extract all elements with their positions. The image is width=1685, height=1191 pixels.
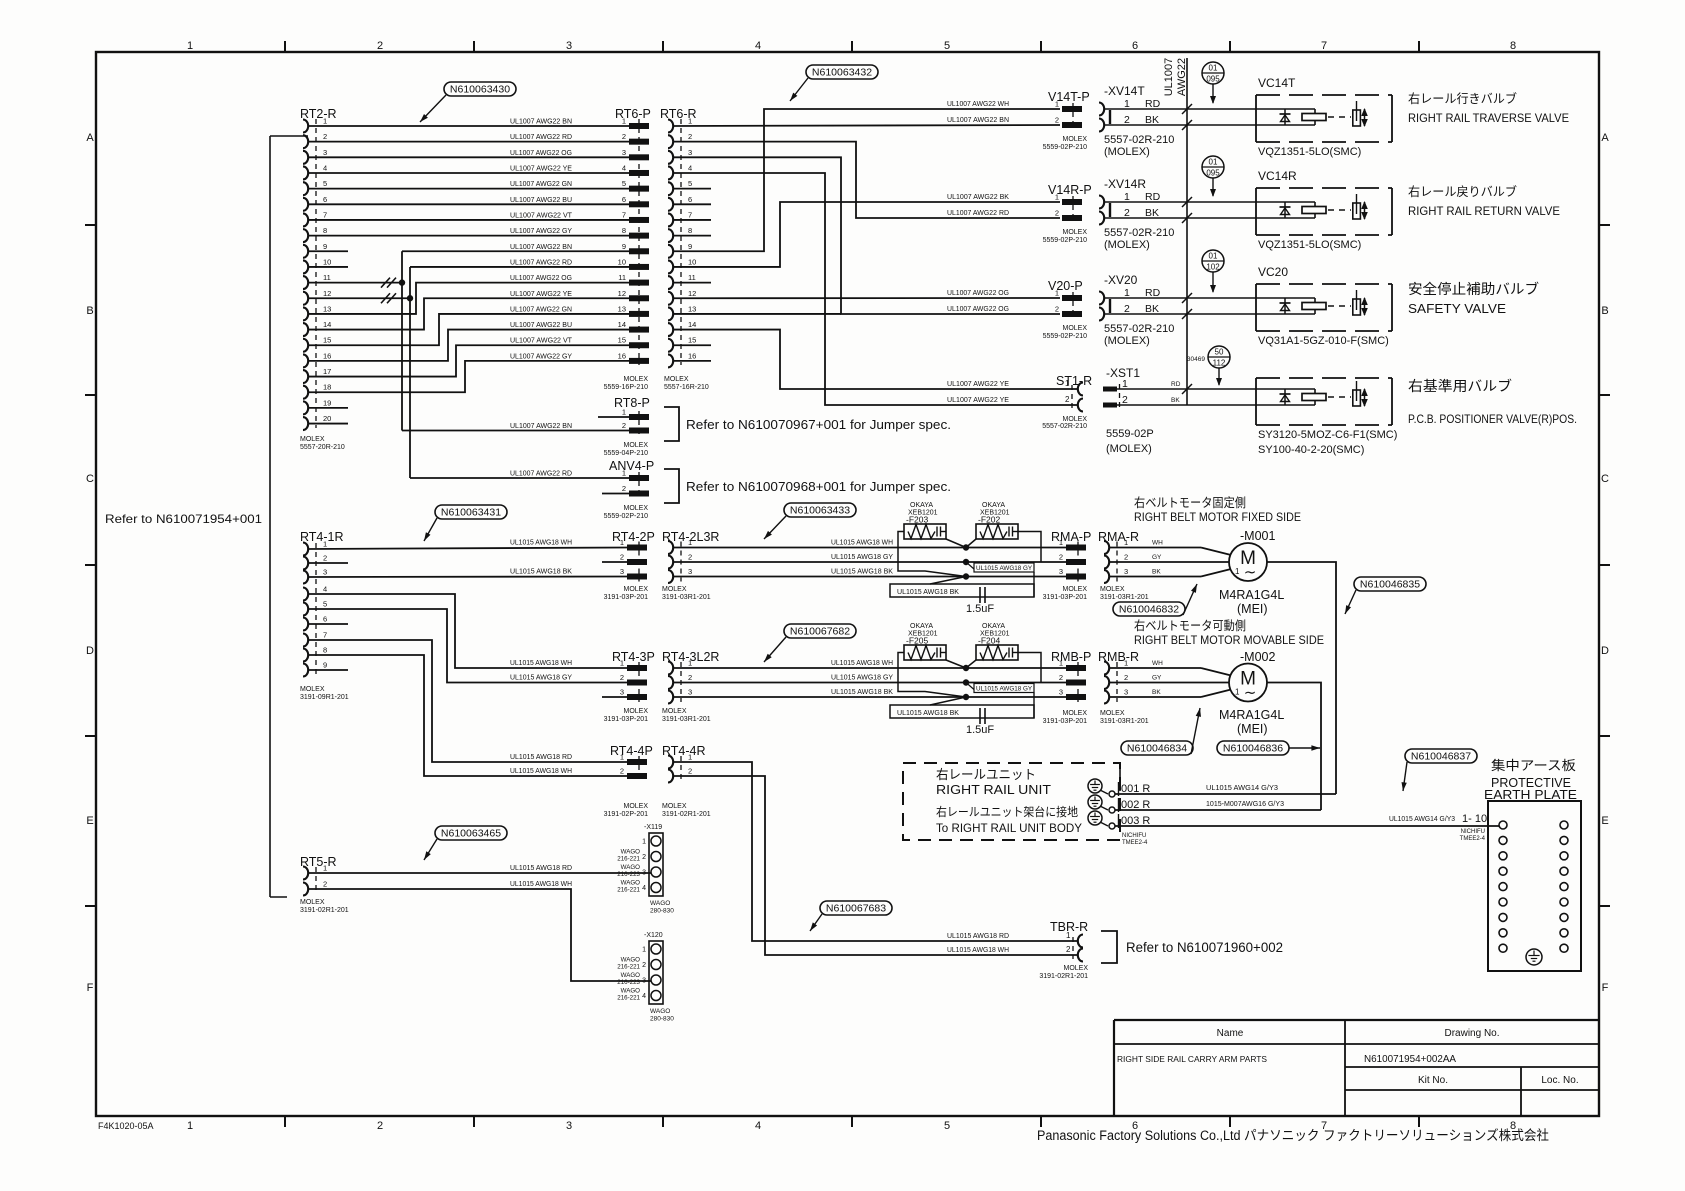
svg-text:MOLEX: MOLEX [300,436,325,443]
svg-text:RT2-R: RT2-R [300,107,337,121]
svg-text:2: 2 [323,132,327,141]
svg-text:3191-03P-201: 3191-03P-201 [604,716,648,723]
title block [1114,1019,1599,1021]
svg-text:MOLEX: MOLEX [1063,965,1088,972]
svg-text:5557-20R-210: 5557-20R-210 [300,444,345,451]
svg-text:3: 3 [323,148,327,157]
wire stub RT2-R pin20 [308,423,348,425]
svg-text:1: 1 [622,469,626,478]
svg-text:TMEE2-4: TMEE2-4 [1122,840,1148,846]
svg-text:1.5uF: 1.5uF [966,724,994,736]
svg-text:(MEI): (MEI) [1237,722,1268,736]
svg-text:UL1015 AWG14 G/Y3: UL1015 AWG14 G/Y3 [1389,816,1455,823]
svg-text:(MOLEX): (MOLEX) [1104,146,1150,158]
wire node A to RT8-P pin2 UL1007 AWG22 BN [402,430,629,432]
svg-text:1: 1 [1055,193,1059,202]
svg-text:RT4-4P: RT4-4P [610,744,653,758]
svg-text:N610063431: N610063431 [441,507,501,519]
svg-text:VQZ1351-5LO(SMC): VQZ1351-5LO(SMC) [1258,146,1361,158]
svg-text:112: 112 [1213,359,1226,368]
svg-text:1: 1 [1055,289,1059,298]
svg-text:3: 3 [642,978,646,985]
svg-text:5557-02R-210: 5557-02R-210 [1104,134,1174,146]
svg-text:A: A [1601,132,1609,144]
svg-text:15: 15 [688,336,696,345]
svg-text:N610067683: N610067683 [826,903,886,915]
svg-text:MOLEX: MOLEX [1062,586,1087,593]
wire RT6-R pin9 to V14T-P pin1 [673,109,1060,251]
svg-text:N610063465: N610063465 [441,828,501,840]
svg-text:-F205: -F205 [906,636,928,646]
svg-text:095: 095 [1206,75,1220,84]
svg-text:右レール行きバルブ: 右レール行きバルブ [1408,91,1517,106]
wire stub RT8-P pin1 [598,416,629,418]
svg-text:UL1007 AWG22 RD: UL1007 AWG22 RD [510,471,572,478]
svg-text:UL1007 AWG22 OG: UL1007 AWG22 OG [947,306,1009,313]
wires RMA-R to motor M001 [1109,547,1201,549]
svg-text:19: 19 [323,398,331,407]
svg-text:Refer to N610071960+002: Refer to N610071960+002 [1126,940,1283,955]
svg-text:3191-03R1-201: 3191-03R1-201 [1100,594,1149,601]
svg-text:2: 2 [1055,305,1059,314]
svg-text:6: 6 [688,195,692,204]
svg-text:16: 16 [688,351,696,360]
svg-text:5557-16R-210: 5557-16R-210 [664,384,709,391]
wire RT2-R pin5 to RT6-P pin5 UL1007 AWG22 GN [308,188,629,190]
svg-text:216-221: 216-221 [617,856,640,863]
wire M001 earth to 001R [1267,562,1336,794]
harness bundle UL1007 AWG22 [1186,58,1188,405]
svg-text:216-221: 216-221 [617,887,640,894]
ref bubble N610063432 [806,65,878,79]
svg-text:3191-03R1-201: 3191-03R1-201 [662,716,711,723]
svg-text:4: 4 [642,993,646,1000]
svg-text:UL1015 AWG18 WH: UL1015 AWG18 WH [510,881,572,888]
svg-text:3191-02R1-201: 3191-02R1-201 [662,811,711,818]
svg-text:UL1015 AWG18 RD: UL1015 AWG18 RD [510,754,572,761]
svg-text:4: 4 [323,163,327,172]
svg-text:2: 2 [377,1120,383,1132]
wire RT6-R pin4 to ST1-R pin2 [673,173,1077,405]
svg-text:UL1007: UL1007 [1163,58,1175,97]
wire RT2-R pin3 to RT6-P pin3 UL1007 AWG22 OG [308,156,629,158]
svg-text:OKAYA: OKAYA [910,623,933,630]
svg-text:095: 095 [1206,169,1220,178]
svg-text:2: 2 [622,421,626,430]
svg-text:F4K1020-05A: F4K1020-05A [98,1121,154,1131]
svg-text:UL1015 AWG18 WH: UL1015 AWG18 WH [510,768,572,775]
wire M002 earth to 002R [1267,683,1321,811]
svg-text:5: 5 [323,600,327,609]
svg-text:2: 2 [620,553,624,562]
svg-text:右ベルトモータ固定側: 右ベルトモータ固定側 [1134,495,1246,510]
svg-text:12: 12 [323,289,331,298]
harness bracket N610071954+001 [269,136,271,897]
svg-text:RT4-2P: RT4-2P [612,530,655,544]
svg-text:4: 4 [688,163,692,172]
svg-text:WAGO: WAGO [621,864,641,871]
wire RT4-1R pin1 to RT4-2P pin1 UL1015 AWG18 WH [308,548,627,550]
svg-text:2: 2 [620,673,624,682]
svg-text:14: 14 [688,320,696,329]
svg-text:N610046835: N610046835 [1360,579,1420,591]
svg-text:OKAYA: OKAYA [982,502,1005,509]
svg-text:-X119: -X119 [644,824,662,831]
svg-text:VC14T: VC14T [1258,76,1296,90]
wire RT4-1R pin7 to RT4-4P pin1 UL1015 AWG18 RD [308,640,627,762]
svg-text:(MOLEX): (MOLEX) [1106,443,1152,455]
motor M002 (M4RA1G4L) [1229,664,1267,702]
svg-text:RIGHT RAIL UNIT: RIGHT RAIL UNIT [936,782,1051,797]
ref bubble N610063433 [784,503,856,517]
svg-text:RT6-P: RT6-P [615,107,651,121]
wire RT6-R pin14 to ST1-R pin1 [673,330,1077,389]
svg-text:16: 16 [618,351,626,360]
svg-text:MOLEX: MOLEX [623,505,648,512]
svg-text:OKAYA: OKAYA [910,502,933,509]
svg-text:2: 2 [1059,673,1063,682]
wire stub RT6-R pin5 [673,188,711,190]
svg-text:1: 1 [688,538,692,547]
svg-text:MOLEX: MOLEX [1100,586,1125,593]
svg-text:UL1007 AWG22 GY: UL1007 AWG22 GY [510,228,572,235]
svg-text:F: F [1602,982,1609,994]
svg-text:UL1015 AWG18 WH: UL1015 AWG18 WH [510,540,572,547]
ref bubble N610046832 [1113,602,1185,616]
svg-text:C: C [86,473,94,485]
svg-text:ST1-R: ST1-R [1056,374,1092,388]
svg-text:3191-03P-201: 3191-03P-201 [1043,594,1087,601]
motor M001 (M4RA1G4L) [1229,543,1267,581]
wire to RT6-P pin9 UL1007 AWG22 BN [402,250,629,252]
wires RT4-3L2R to RMB-P [673,667,1066,669]
svg-text:5: 5 [944,40,950,52]
svg-text:1: 1 [688,117,692,126]
svg-text:UL1007 AWG22 GN: UL1007 AWG22 GN [510,181,572,188]
svg-text:3191-03P-201: 3191-03P-201 [604,594,648,601]
svg-text:D: D [86,645,94,657]
svg-text:(MOLEX): (MOLEX) [1104,239,1150,251]
jumper bracket ANV4-P [664,469,679,503]
wire stub RT2-R pin10 [308,266,348,268]
svg-text:MOLEX: MOLEX [623,586,648,593]
svg-text:5559-02P-210: 5559-02P-210 [1043,333,1087,340]
wire RT2-R pin2 to RT6-P pin2 UL1007 AWG22 RD [308,141,629,143]
svg-text:2: 2 [1055,116,1059,125]
svg-text:N610071954+002AA: N610071954+002AA [1364,1053,1456,1065]
svg-text:1: 1 [622,117,626,126]
svg-text:3: 3 [688,148,692,157]
svg-text:13: 13 [618,304,626,313]
wire node A vertical (to RT6-P pin9 / RT8-P pin2) [401,251,403,430]
svg-text:5559-02P-210: 5559-02P-210 [1043,144,1087,151]
svg-text:2: 2 [1065,395,1070,404]
svg-text:Name: Name [1217,1028,1244,1039]
svg-text:3191-03P-201: 3191-03P-201 [1043,718,1087,725]
svg-text:RT4-3P: RT4-3P [612,650,655,664]
svg-text:216-221: 216-221 [617,995,640,1002]
wire RT4-1R pin8 to RT4-4P pin2 UL1015 AWG18 WH [308,655,627,776]
svg-text:WAGO: WAGO [621,849,641,856]
svg-text:UL1015 AWG18 GY: UL1015 AWG18 GY [510,675,572,682]
ref bubble N610046837 [1405,749,1477,763]
svg-text:UL1007 AWG22 YE: UL1007 AWG22 YE [947,397,1009,404]
svg-text:10: 10 [618,257,626,266]
svg-text:30469: 30469 [1187,356,1205,363]
svg-text:UL1007 AWG22 RD: UL1007 AWG22 RD [947,210,1009,217]
svg-text:TMEE2-4: TMEE2-4 [1460,836,1486,842]
svg-text:20: 20 [323,414,331,423]
wire RT2-R pin16 to RT6-P pin14 UL1007 AWG22 BU [308,330,629,361]
svg-text:UL1007 AWG22 VT: UL1007 AWG22 VT [510,212,573,219]
svg-text:2: 2 [622,132,626,141]
svg-text:MOLEX: MOLEX [662,803,687,810]
svg-text:11: 11 [618,273,626,282]
svg-text:50: 50 [1215,348,1224,357]
svg-text:8: 8 [622,226,626,235]
svg-text:4: 4 [755,40,761,52]
svg-text:2: 2 [1124,553,1128,562]
wire RT6-R pin2 to V14R-P pin2 [673,142,1060,218]
svg-text:NICHIFU: NICHIFU [1461,829,1485,835]
wire node B vertical (to RT6-P pin10 / ANV4-P pin1) [409,267,411,478]
svg-text:UL1015 AWG14 G/Y3: UL1015 AWG14 G/Y3 [1206,785,1278,792]
svg-text:1: 1 [1059,659,1063,668]
svg-text:11: 11 [688,273,696,282]
svg-text:1: 1 [323,540,327,549]
ref bubble N610063430 [444,82,516,96]
svg-text:4: 4 [642,885,646,892]
svg-text:UL1015 AWG18 BK: UL1015 AWG18 BK [831,689,893,696]
svg-text:9: 9 [323,242,327,251]
svg-text:WAGO: WAGO [621,957,641,964]
wire RT2-R pin8 to RT6-P pin8 UL1007 AWG22 GY [308,235,629,237]
wire stub RT2-R pin9 [308,250,348,252]
wire stub RT6-R pin11 [673,282,711,284]
wire node B to ANV4-P pin1 UL1007 AWG22 RD [410,477,629,479]
svg-text:(MEI): (MEI) [1237,602,1268,616]
svg-text:3: 3 [1124,688,1128,697]
unit box stub line [1119,763,1121,791]
ref circle 01/095 (V14T) [1202,62,1224,84]
svg-text:4: 4 [323,585,327,594]
svg-text:-F203: -F203 [906,515,928,525]
svg-text:安全停止補助バルブ: 安全停止補助バルブ [1408,281,1539,297]
terminal labels 001R/002R/003R [1118,782,1120,796]
wire stub RT4-1R pin9 [308,669,348,671]
right rail unit box [903,763,1120,840]
svg-text:RMB-P: RMB-P [1051,650,1091,664]
svg-text:N610067682: N610067682 [790,626,850,638]
svg-text:MOLEX: MOLEX [1100,710,1125,717]
jumper bracket RT8-P [664,407,679,441]
svg-text:WAGO: WAGO [621,972,641,979]
svg-text:MOLEX: MOLEX [1062,136,1087,143]
svg-text:UL1007 AWG22 BU: UL1007 AWG22 BU [510,197,572,204]
svg-text:UL1015 AWG18 BK: UL1015 AWG18 BK [897,589,959,596]
svg-text:1.5uF: 1.5uF [966,603,994,615]
wire RT2-R pin12 (twisted) to node [308,297,410,299]
svg-text:5: 5 [323,179,327,188]
svg-text:14: 14 [323,320,331,329]
svg-text:8: 8 [1510,40,1516,52]
svg-text:EARTH PLATE: EARTH PLATE [1484,788,1577,802]
svg-text:UL1015 AWG18 WH: UL1015 AWG18 WH [831,660,893,667]
svg-text:1: 1 [323,864,327,873]
svg-text:N610063430: N610063430 [450,84,510,96]
wire RT6-R pin10 to V14R-P pin1 [673,202,1060,267]
svg-text:VQ31A1-5GZ-010-F(SMC): VQ31A1-5GZ-010-F(SMC) [1258,335,1389,347]
svg-text:10: 10 [323,257,331,266]
svg-text:V20-P: V20-P [1048,279,1083,293]
svg-text:D: D [1601,645,1609,657]
svg-text:VQZ1351-5LO(SMC): VQZ1351-5LO(SMC) [1258,239,1361,251]
wire RT2-R pin18 to RT6-P pin16 UL1007 AWG22 GY [308,361,629,392]
svg-text:右レールユニット: 右レールユニット [936,767,1036,782]
svg-text:UL1007 AWG22 GY: UL1007 AWG22 GY [510,353,572,360]
wire RT2-R pin17 to RT6-P pin15 UL1007 AWG22 VT [308,345,629,376]
svg-text:SY100-40-2-20(SMC): SY100-40-2-20(SMC) [1258,444,1364,456]
svg-text:14: 14 [618,320,626,329]
svg-text:6: 6 [1132,40,1138,52]
svg-text:3: 3 [688,567,692,576]
svg-text:-XV20: -XV20 [1104,273,1138,287]
svg-text:1: 1 [620,659,624,668]
wire RT2-R pin1 to RT6-P pin1 UL1007 AWG22 BN [308,125,629,127]
svg-text:3: 3 [1124,567,1128,576]
svg-text:2: 2 [622,484,626,493]
svg-text:UL1015 AWG18 BK: UL1015 AWG18 BK [831,569,893,576]
svg-text:2: 2 [688,673,692,682]
svg-text:5559-02P-210: 5559-02P-210 [1043,237,1087,244]
wire RT5-R pin1 to X119-3 UL1015 AWG18 RD [308,872,651,874]
ref bubble N610046834 [1121,741,1193,755]
svg-text:ANV4-P: ANV4-P [609,459,654,473]
svg-text:(MOLEX): (MOLEX) [1104,335,1150,347]
svg-text:3191-03R1-201: 3191-03R1-201 [1100,718,1149,725]
svg-text:1: 1 [620,753,624,762]
svg-text:UL1007 AWG22 YE: UL1007 AWG22 YE [510,291,572,298]
svg-text:5557-02R-210: 5557-02R-210 [1042,423,1087,430]
svg-text:N610046836: N610046836 [1223,743,1283,755]
svg-text:1: 1 [688,659,692,668]
wire RT6-R pin12 to V20-P pin1 [673,297,1060,299]
svg-text:右レール戻りバルブ: 右レール戻りバルブ [1408,184,1517,199]
svg-text:1: 1 [642,839,646,846]
svg-text:1: 1 [187,40,193,52]
svg-text:9: 9 [688,242,692,251]
wire 001R to M001 UL1015 AWG14 G/Y3 [1115,793,1336,795]
svg-text:2: 2 [642,962,646,969]
svg-text:10: 10 [688,257,696,266]
svg-text:2: 2 [688,132,692,141]
wire stub RT6-R pin8 [673,235,711,237]
svg-text:WAGO: WAGO [621,880,641,887]
svg-text:-F204: -F204 [978,636,1000,646]
svg-text:8: 8 [688,226,692,235]
svg-text:1: 1 [1124,659,1128,668]
svg-text:01: 01 [1209,252,1218,261]
wire RT4-1R pin4 to RT4-3P pin1 UL1015 AWG18 WH [308,594,627,668]
svg-text:MOLEX: MOLEX [1062,229,1087,236]
svg-text:BK: BK [1152,569,1161,576]
svg-text:MOLEX: MOLEX [623,376,648,383]
svg-text:7: 7 [1321,40,1327,52]
svg-text:VC20: VC20 [1258,265,1288,279]
svg-text:MOLEX: MOLEX [300,899,325,906]
wire RT2-R pin15 to RT6-P pin13 UL1007 AWG22 GN [308,314,629,345]
svg-text:UL1007 AWG22 OG: UL1007 AWG22 OG [510,275,572,282]
svg-text:6: 6 [323,195,327,204]
svg-text:17: 17 [323,367,331,376]
svg-text:-X120: -X120 [644,932,663,939]
svg-text:WAGO: WAGO [650,1008,670,1015]
svg-text:3: 3 [620,688,624,697]
wire RT2-R pin6 to RT6-P pin6 UL1007 AWG22 BU [308,203,629,205]
wire RT4-1R pin5 to RT4-3P pin2 UL1015 AWG18 GY [308,609,627,683]
wire RT2-R pin11 (twisted) to node [308,282,402,284]
svg-text:A: A [86,132,94,144]
svg-text:2: 2 [642,854,646,861]
svg-text:Refer to N610070968+001 for Ju: Refer to N610070968+001 for Jumper spec. [686,479,951,494]
svg-text:-XV14T: -XV14T [1104,84,1145,98]
svg-text:M4RA1G4L: M4RA1G4L [1219,588,1284,602]
svg-text:3: 3 [642,870,646,877]
svg-text:N610063433: N610063433 [790,505,850,517]
svg-text:1: 1 [1059,538,1063,547]
svg-text:3: 3 [566,1120,572,1132]
svg-text:13: 13 [323,304,331,313]
svg-text:2: 2 [688,553,692,562]
wire RT2-R pin7 to RT6-P pin7 UL1007 AWG22 VT [308,219,629,221]
ref circle 01/102 (V20) [1202,250,1224,272]
svg-text:UL1015 AWG18 GY: UL1015 AWG18 GY [976,686,1033,693]
svg-text:UL1007 AWG22 OG: UL1007 AWG22 OG [510,150,572,157]
wire stub RT6-R pin15 [673,344,711,346]
svg-text:UL1007 AWG22 BN: UL1007 AWG22 BN [947,117,1009,124]
svg-text:15: 15 [618,336,626,345]
ref bubble N610063465 [435,826,507,840]
svg-text:1: 1 [1066,931,1071,940]
svg-text:RIGHT RAIL RETURN VALVE: RIGHT RAIL RETURN VALVE [1408,204,1560,218]
svg-text:Drawing No.: Drawing No. [1444,1028,1499,1039]
svg-text:6: 6 [323,615,327,624]
svg-text:7: 7 [688,210,692,219]
svg-text:∼: ∼ [1244,685,1257,702]
svg-text:RIGHT RAIL TRAVERSE VALVE: RIGHT RAIL TRAVERSE VALVE [1408,111,1569,125]
svg-text:5559-02P: 5559-02P [1106,428,1154,440]
svg-text:UL1007 AWG22 BN: UL1007 AWG22 BN [510,119,572,126]
svg-text:UL1007 AWG22 WH: UL1007 AWG22 WH [947,101,1009,108]
svg-text:1: 1 [187,1120,193,1132]
svg-text:∼: ∼ [1244,564,1257,581]
svg-text:9: 9 [323,661,327,670]
svg-text:UL1015 AWG18 RD: UL1015 AWG18 RD [947,933,1009,940]
svg-text:6: 6 [622,195,626,204]
svg-text:RIGHT BELT MOTOR MOVABLE SIDE: RIGHT BELT MOTOR MOVABLE SIDE [1134,633,1324,647]
svg-text:13: 13 [688,304,696,313]
ref bubble N610046836 [1217,741,1289,755]
svg-text:MOLEX: MOLEX [662,708,687,715]
svg-text:3191-03R1-201: 3191-03R1-201 [662,594,711,601]
svg-text:MOLEX: MOLEX [1062,325,1087,332]
wire stub RT6-R pin13 [673,313,841,315]
svg-text:UL1015 AWG18 WH: UL1015 AWG18 WH [510,660,572,667]
svg-text:RIGHT BELT MOTOR FIXED SIDE: RIGHT BELT MOTOR FIXED SIDE [1134,510,1301,524]
svg-text:7: 7 [622,210,626,219]
wire stub RT4-1R pin2 [308,562,348,564]
svg-text:MOLEX: MOLEX [1062,416,1087,423]
